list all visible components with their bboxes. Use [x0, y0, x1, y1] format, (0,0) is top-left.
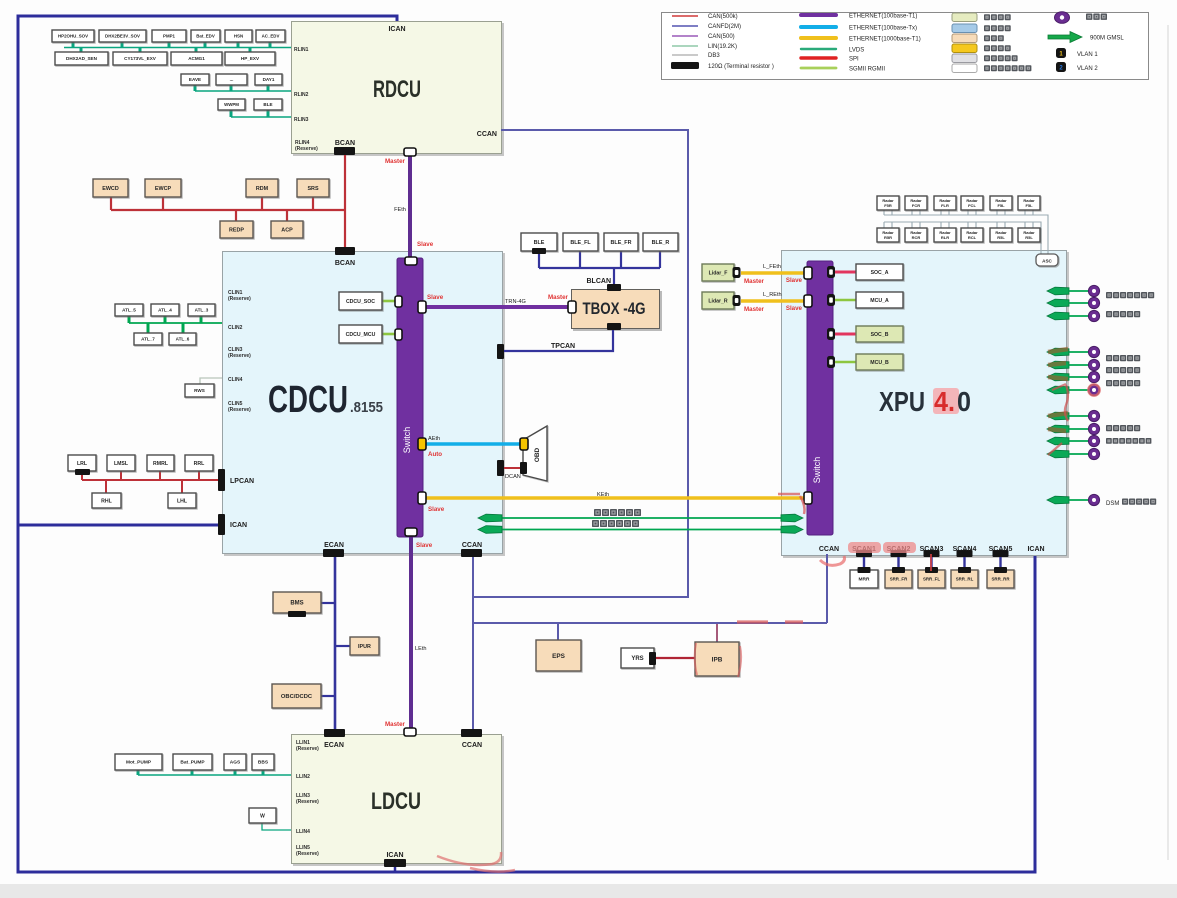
- wire LPCAN stub LHL: [181, 480, 183, 493]
- wire ECAN stub OBC: [321, 695, 335, 697]
- svg-text:ATL_3: ATL_3: [195, 308, 209, 313]
- svg-text:R5R: R5R: [884, 235, 892, 240]
- node LMSL: [107, 455, 135, 471]
- svg-text:Master: Master: [548, 294, 569, 301]
- svg-text:ETHERNET(1000base-T1): ETHERNET(1000base-T1): [849, 36, 921, 42]
- svg-text:ATL_7: ATL_7: [141, 337, 155, 342]
- port TBOX Master: [568, 301, 576, 313]
- node Radar row2 6: [1018, 228, 1040, 242]
- svg-text:Lidar_R: Lidar_R: [708, 298, 728, 304]
- XPU title: [933, 388, 959, 414]
- node Radar row1 5: [990, 196, 1012, 210]
- svg-text:L_REth: L_REth: [763, 292, 782, 298]
- node MCU_B: [856, 354, 903, 370]
- svg-text:DB3: DB3: [708, 53, 720, 59]
- svg-text:ETHERNET(100base-Tx): ETHERNET(100base-Tx): [849, 25, 917, 31]
- svg-text:BMS: BMS: [290, 601, 303, 607]
- CDCU block: [222, 251, 503, 554]
- svg-text:DHX2BE3V_SOV: DHX2BE3V_SOV: [105, 34, 140, 39]
- svg-text:MCU_A: MCU_A: [870, 298, 889, 304]
- wire RLIN3 bus: [231, 116, 291, 118]
- node HSN: [225, 30, 252, 42]
- wire camera 6: [1069, 376, 1089, 378]
- svg-text:BCAN: BCAN: [335, 260, 355, 267]
- port XPU SOC_B: [827, 328, 835, 340]
- svg-text:(Reserve): (Reserve): [228, 407, 251, 413]
- node Radar row1 3: [934, 196, 956, 210]
- gmsl arrow video2 left: [478, 526, 502, 534]
- wire CCAN RDCU to junction: [473, 130, 688, 597]
- svg-text:SRR_RR: SRR_RR: [991, 577, 1010, 582]
- svg-text:TPCAN: TPCAN: [551, 343, 575, 350]
- svg-text:...: ...: [230, 77, 234, 82]
- wire RLIN2 bus: [195, 90, 291, 92]
- svg-text:ATL_4: ATL_4: [158, 308, 172, 313]
- wire camera 4: [1069, 351, 1089, 353]
- wire camera 10: [1069, 440, 1089, 442]
- wire RLIN3 tick 231: [230, 110, 233, 117]
- terminal SRR box 1: [858, 567, 871, 573]
- annotation SCAN3 red line: [930, 554, 932, 571]
- svg-text:LRL: LRL: [77, 461, 88, 467]
- camera icon 2: [1088, 297, 1099, 308]
- svg-text:TRN-4G: TRN-4G: [505, 299, 526, 305]
- node EWCP: [145, 179, 181, 197]
- gmsl arrow video1 left: [478, 514, 502, 522]
- node Bat_EDV: [191, 30, 220, 42]
- svg-text:RDCU: RDCU: [373, 76, 421, 103]
- terminal RDCU BCAN: [334, 147, 355, 155]
- node Radar row2 1: [877, 228, 899, 242]
- wire RLIN1 tick2 250: [249, 48, 252, 53]
- wire RLIN2 tick 195: [194, 85, 197, 91]
- svg-text:BBS: BBS: [258, 760, 269, 766]
- node MRR: [850, 570, 878, 588]
- terminal CDCU TPCAN: [497, 344, 504, 359]
- svg-text:ATL_6: ATL_6: [176, 337, 190, 342]
- terminal SRR box 5: [994, 567, 1007, 573]
- svg-text:Mot_PUMP: Mot_PUMP: [126, 760, 152, 766]
- wire LLIN2 tick 235: [234, 770, 237, 775]
- wire RLIN1 tick2 81: [80, 48, 83, 53]
- wire SGMII CDCU_SOC: [382, 300, 398, 303]
- wire camera 9: [1069, 428, 1089, 430]
- CDCU ethernet switch: [397, 258, 423, 537]
- svg-text:DHX2AD_SEN: DHX2AD_SEN: [66, 56, 98, 61]
- svg-text:YRS: YRS: [631, 656, 643, 662]
- camera icon 9: [1088, 423, 1099, 434]
- svg-text:CCAN: CCAN: [462, 542, 482, 549]
- wire BCAN stub RDM: [261, 197, 263, 210]
- svg-text:CAN(500k): CAN(500k): [708, 14, 738, 20]
- svg-text:SGMII RGMII: SGMII RGMII: [849, 66, 885, 72]
- svg-text:CDCU_SOC: CDCU_SOC: [346, 299, 375, 305]
- node EWCD: [93, 179, 128, 197]
- svg-text:(Reserve): (Reserve): [228, 296, 251, 302]
- svg-text:CCAN: CCAN: [477, 131, 497, 138]
- wire camera 3: [1069, 315, 1089, 317]
- svg-text:RRL: RRL: [194, 461, 205, 467]
- wire radar harness row2: [884, 222, 1041, 254]
- svg-text:Bat_PUMP: Bat_PUMP: [180, 760, 205, 766]
- svg-text:ICAN: ICAN: [386, 852, 403, 859]
- svg-text:Slave: Slave: [786, 277, 803, 284]
- node HP_EXV: [225, 52, 275, 65]
- legend camera icon: [1055, 12, 1070, 24]
- svg-text:SCAN5: SCAN5: [989, 546, 1013, 553]
- node RHL: [92, 493, 121, 508]
- svg-text:CANFD(2M): CANFD(2M): [708, 24, 741, 30]
- wire camera 11: [1069, 453, 1089, 455]
- wire SGMII MCU_A: [834, 299, 856, 302]
- svg-text:IPUR: IPUR: [358, 644, 371, 650]
- terminal OBD DCAN: [520, 462, 527, 474]
- terminal XPU SCAN1: [856, 550, 872, 557]
- wire LPCAN bus: [82, 479, 219, 481]
- svg-text:RCL: RCL: [968, 235, 977, 240]
- svg-text:DSM: DSM: [1106, 501, 1119, 507]
- node Lidar_R: [702, 292, 734, 309]
- node REDP: [220, 221, 253, 238]
- node AC_EDV: [256, 30, 285, 42]
- svg-text:DCAN: DCAN: [505, 474, 521, 480]
- svg-text:OBC/DCDC: OBC/DCDC: [281, 694, 313, 700]
- svg-text:4.: 4.: [934, 386, 955, 417]
- node RMRL: [147, 455, 174, 471]
- legend col2 lines: [801, 13, 836, 17]
- wire camera 7: [1069, 389, 1089, 391]
- svg-text:CCAN: CCAN: [462, 742, 482, 749]
- wire RLIN1 tick 205: [204, 42, 207, 48]
- wire CLIN2 bus: [129, 322, 222, 324]
- svg-text:SRS: SRS: [307, 186, 318, 192]
- node Radar row1 1: [877, 196, 899, 210]
- terminal LDCU ECAN: [324, 729, 345, 737]
- svg-text:RLIN1: RLIN1: [294, 47, 309, 53]
- svg-text:Slave: Slave: [417, 241, 434, 248]
- node CDCU_MCU: [339, 325, 382, 343]
- svg-text:(Reserve): (Reserve): [296, 799, 319, 805]
- svg-text:BLE_R: BLE_R: [652, 240, 670, 246]
- wire LLIN4 line: [262, 823, 291, 830]
- svg-text:Master: Master: [385, 158, 406, 165]
- terminal CDCU ECAN: [323, 549, 344, 557]
- port XPU MCU_B: [827, 356, 835, 368]
- gmsl arrow camera 11: [1047, 450, 1069, 458]
- wire LEth CDCU-LDCU: [409, 536, 413, 729]
- node EAVE: [181, 74, 209, 85]
- annotation KEth right marks: [778, 494, 805, 514]
- svg-text:VLAN 1: VLAN 1: [1077, 52, 1098, 58]
- annotation highlight SCAN1: [848, 542, 881, 553]
- terminal XPU SCAN2: [891, 550, 907, 557]
- node Radar row1 4: [961, 196, 983, 210]
- wire CCAN stub EPS: [557, 623, 559, 640]
- wire BCAN stub REDP: [235, 210, 237, 221]
- svg-text:AGS: AGS: [230, 760, 241, 766]
- svg-text:CCAN: CCAN: [819, 546, 839, 553]
- node IPB: [695, 642, 739, 676]
- wire RLIN1 tick 238: [237, 42, 240, 48]
- OBD connector: [523, 426, 547, 481]
- svg-text:RDM: RDM: [256, 186, 269, 192]
- svg-text:(Reserve): (Reserve): [296, 851, 319, 857]
- node RWS: [185, 384, 214, 397]
- port CDCU switch bottom: [405, 528, 417, 536]
- wire CCAN stub IPB: [716, 623, 718, 642]
- svg-text:BLE: BLE: [263, 102, 272, 107]
- terminal LDCU ICAN: [384, 859, 406, 867]
- svg-text:SOC_B: SOC_B: [871, 332, 889, 338]
- wire CLIN2 tick2 183: [182, 323, 185, 333]
- legend GMSL arrow: [1048, 32, 1082, 43]
- wire SPI SOC_A: [834, 271, 856, 274]
- wire ECAN stub BMS: [321, 602, 335, 604]
- node WWPM: [218, 99, 245, 110]
- svg-text:LLIN2: LLIN2: [296, 774, 310, 780]
- svg-text:SPI: SPI: [849, 56, 859, 62]
- terminal TBOX BLCAN: [607, 284, 621, 291]
- node LRL: [68, 455, 96, 471]
- port CDCU switch AEth: [418, 438, 426, 450]
- wire ICAN branch to CDCU: [18, 524, 220, 527]
- svg-text:BLE_FR: BLE_FR: [611, 240, 632, 246]
- node BLE: [521, 233, 557, 251]
- port CDCU switch SOC: [395, 296, 402, 307]
- svg-text:Switch: Switch: [402, 427, 412, 454]
- port XPU switch L_R: [804, 295, 812, 307]
- wire video line 1: [480, 517, 800, 519]
- wire CLIN2 tick 165: [164, 316, 167, 323]
- camera icon 1: [1088, 285, 1099, 296]
- svg-text:VLAN 2: VLAN 2: [1077, 66, 1098, 72]
- node SOC_A: [856, 264, 903, 280]
- wire LLIN2 tick 192: [191, 770, 194, 775]
- svg-text:CY173VL_EXV: CY173VL_EXV: [124, 56, 157, 61]
- wire camera 12: [1069, 499, 1089, 501]
- legend frame: [661, 12, 1149, 80]
- terminal CDCU BCAN: [335, 247, 355, 255]
- node ACMG1: [171, 52, 222, 65]
- svg-text:Slave: Slave: [786, 305, 803, 312]
- annotation IPB outline: [695, 624, 741, 677]
- svg-text:HSN: HSN: [234, 34, 243, 39]
- wire RLIN1 tick2 140: [139, 48, 142, 53]
- node CDCU_SOC: [339, 292, 382, 310]
- wire BLCAN stub BLE_FR: [620, 251, 622, 268]
- node ASC hub: [1036, 254, 1058, 266]
- svg-text:.8155: .8155: [350, 399, 383, 416]
- svg-text:SCAN4: SCAN4: [953, 546, 977, 553]
- node SOC_B: [856, 326, 903, 342]
- node Radar row1 2: [905, 196, 927, 210]
- svg-text:ATL_5: ATL_5: [122, 308, 136, 313]
- svg-text:RHL: RHL: [101, 498, 112, 504]
- wire CLIN2 tick 201: [200, 316, 203, 323]
- wire LPCAN stub RMRL: [159, 471, 161, 480]
- wire radar harness row1: [884, 210, 1048, 254]
- terminal SRR box 3: [925, 567, 938, 573]
- svg-text:RLIN2: RLIN2: [294, 92, 309, 98]
- node DHX2AD_SEN: [55, 52, 108, 65]
- wire BCAN RDCU-CDCU: [344, 152, 346, 250]
- port OBD AEth: [520, 438, 528, 450]
- wire LLIN2 tick 138: [137, 770, 140, 775]
- svg-text:MCU_B: MCU_B: [870, 360, 889, 366]
- wire RLIN1 tick 122: [121, 42, 124, 48]
- wire RLIN1 tick 73: [72, 42, 75, 48]
- wire SGMII CDCU_MCU: [382, 333, 398, 336]
- svg-text:LMSL: LMSL: [114, 461, 129, 467]
- svg-text:RMRL: RMRL: [153, 461, 169, 467]
- wire AEth OBD: [425, 442, 523, 446]
- terminal CDCU DCAN: [497, 460, 504, 476]
- camera icon 8: [1088, 410, 1099, 421]
- svg-text:Master: Master: [385, 721, 406, 728]
- annotation highlight SCAN2: [883, 542, 916, 553]
- camera icon 4: [1088, 346, 1099, 357]
- legend 120ohm terminal: [671, 62, 699, 69]
- svg-text:RLR: RLR: [941, 235, 949, 240]
- node W: [249, 808, 276, 823]
- svg-text:LHL: LHL: [177, 498, 188, 504]
- wire BCAN stub ACP: [286, 210, 288, 221]
- gmsl arrow camera 8: [1047, 412, 1069, 420]
- svg-text:EWCD: EWCD: [102, 186, 119, 192]
- node IPUR: [350, 637, 379, 655]
- wire BLCAN bus: [539, 267, 660, 269]
- terminal CDCU ICAN-L: [218, 514, 225, 535]
- svg-text:ACMG1: ACMG1: [188, 56, 205, 61]
- svg-text:HP2OHU_SOV: HP2OHU_SOV: [58, 34, 88, 39]
- XPU block: [781, 250, 1067, 556]
- svg-text:(Reserve): (Reserve): [296, 746, 319, 752]
- wire TPCAN: [504, 327, 613, 351]
- svg-text:SRR_FR: SRR_FR: [890, 577, 908, 582]
- gmsl arrow camera 7: [1047, 386, 1069, 394]
- label side camera LF: [1106, 367, 1140, 373]
- svg-text:F5L: F5L: [1025, 203, 1033, 208]
- gmsl arrow camera 1: [1047, 287, 1069, 295]
- svg-text:F5R: F5R: [884, 203, 892, 208]
- port CDCU switch top: [405, 257, 417, 265]
- port CDCU switch MCU: [395, 329, 402, 340]
- wire SCAN2 stub: [897, 554, 899, 570]
- wire L_FEth lidar: [741, 271, 806, 275]
- annotation squiggle CCAN: [820, 556, 845, 565]
- terminal BLE: [532, 248, 546, 254]
- terminal XPU SCAN4: [957, 550, 973, 557]
- svg-text:SOC_A: SOC_A: [871, 270, 889, 276]
- terminal LRL: [75, 469, 90, 475]
- svg-text:ETHERNET(100base-T1): ETHERNET(100base-T1): [849, 13, 917, 19]
- svg-text:TBOX -4G: TBOX -4G: [583, 299, 646, 318]
- node MCU_A: [856, 292, 903, 308]
- node DHX2BE3V_SOV: [99, 30, 146, 42]
- annotation CCAN bus dashes: [737, 620, 803, 623]
- wire ICAN stub LDCU: [394, 864, 397, 872]
- wire SCAN1 stub: [863, 554, 865, 570]
- wire BLCAN stub BLE_R: [659, 251, 661, 268]
- wire RLIN1 tick 270: [269, 42, 272, 48]
- wire BLCAN stub BLE: [538, 252, 540, 268]
- legend VLAN2: [1056, 62, 1066, 72]
- label rear camera: [1106, 311, 1140, 317]
- svg-text:FCR: FCR: [912, 203, 920, 208]
- svg-text:120Ω (Terminal resistor ): 120Ω (Terminal resistor ): [708, 64, 774, 70]
- node BLE_FL: [563, 233, 598, 251]
- node DAY1: [255, 74, 282, 85]
- wire RLIN2 tick 231: [230, 85, 233, 91]
- bottom gray strip: [0, 884, 1177, 898]
- node ATL_4: [151, 304, 179, 316]
- svg-text:DAY1: DAY1: [263, 77, 275, 82]
- svg-text:PMP1: PMP1: [163, 34, 176, 39]
- svg-text:AEth: AEth: [428, 436, 440, 442]
- legend VLAN1: [1056, 48, 1066, 58]
- wire SPI YRS-IPB: [656, 657, 695, 659]
- wire camera 8: [1069, 415, 1089, 417]
- LDCU block: [291, 734, 502, 864]
- svg-text:IPB: IPB: [712, 656, 723, 663]
- svg-text:F5L: F5L: [997, 203, 1005, 208]
- wire BCAN stub EWCP: [162, 197, 164, 210]
- svg-text:MRR: MRR: [859, 577, 870, 583]
- node SRR_RL: [951, 570, 978, 588]
- port XPU switch L_F: [804, 267, 812, 279]
- wire RLIN3 tick 268: [267, 110, 270, 117]
- wire FEth RDCU-CDCU: [408, 152, 412, 258]
- svg-text:ECAN: ECAN: [324, 542, 344, 549]
- wire SGMII MCU_B: [834, 361, 856, 364]
- wire BCAN stub EWCD: [110, 197, 112, 210]
- terminal SRR box 4: [958, 567, 971, 573]
- camera icon 6: [1088, 371, 1099, 382]
- node BMS: [273, 592, 321, 613]
- wire L_REth lidar: [741, 299, 806, 303]
- svg-text:CDCU: CDCU: [268, 379, 348, 421]
- svg-text:EPS: EPS: [552, 653, 566, 660]
- svg-text:Slave: Slave: [416, 542, 433, 549]
- svg-text:OBD: OBD: [534, 448, 541, 463]
- wire SCAN4 stub: [963, 554, 965, 570]
- wire DCAN: [504, 467, 523, 469]
- port RDCU Master: [404, 148, 416, 156]
- gmsl arrow camera 10: [1047, 437, 1069, 445]
- node SRS: [297, 179, 329, 197]
- svg-text:KEth: KEth: [597, 492, 609, 498]
- gmsl arrow camera 3: [1047, 312, 1069, 320]
- port XPU SOC_A: [827, 266, 835, 278]
- node AGS: [224, 754, 246, 770]
- svg-text:BLCAN: BLCAN: [587, 278, 612, 285]
- svg-text:Slave: Slave: [428, 506, 445, 513]
- node Radar row1 6: [1018, 196, 1040, 210]
- gmsl arrow video1 right: [781, 514, 803, 522]
- wire video line 2: [480, 529, 800, 531]
- svg-text:ACP: ACP: [281, 227, 293, 233]
- port XPU switch KEth: [804, 492, 812, 504]
- svg-text:CAN(500): CAN(500): [708, 34, 735, 40]
- node PMP1: [152, 30, 186, 42]
- node Radar row2 4: [961, 228, 983, 242]
- svg-text:(Reserve): (Reserve): [228, 353, 251, 359]
- node SRR_RR: [987, 570, 1014, 588]
- wire CCAN CDCU to LDCU: [472, 555, 474, 731]
- wire BLCAN TBOX stub: [613, 268, 615, 287]
- node YRS: [621, 648, 654, 668]
- wire camera 5: [1069, 364, 1089, 366]
